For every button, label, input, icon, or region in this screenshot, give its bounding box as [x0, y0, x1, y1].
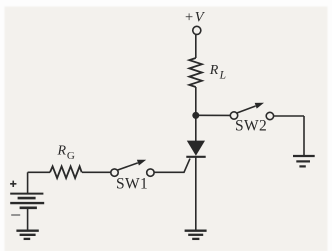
- svg-text:SW1: SW1: [116, 175, 148, 192]
- svg-text:SW2: SW2: [235, 117, 267, 134]
- svg-text:+V: +V: [185, 9, 206, 25]
